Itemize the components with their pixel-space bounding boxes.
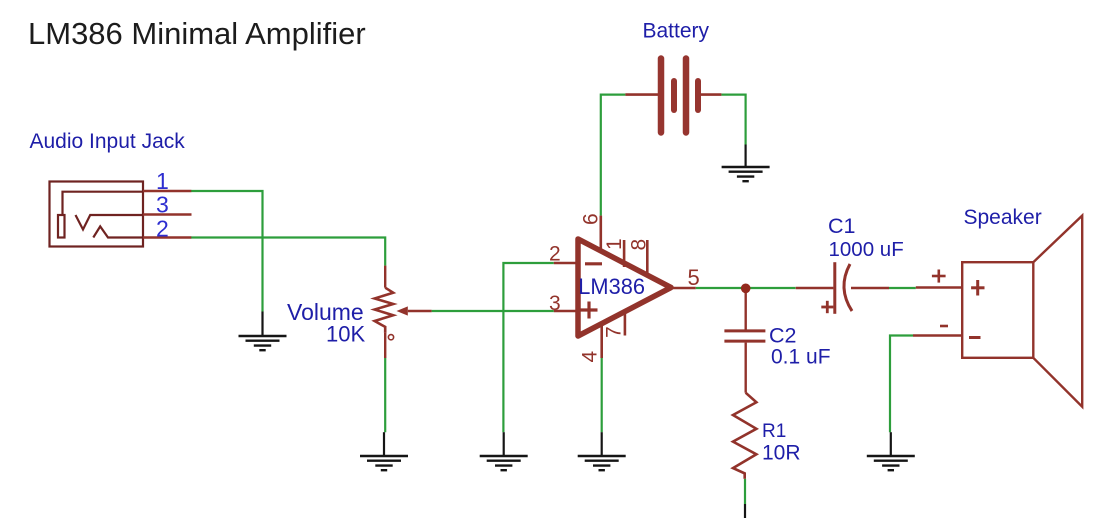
- svg-text:C2: C2: [769, 324, 796, 348]
- svg-text:10R: 10R: [762, 442, 801, 465]
- svg-text:Battery: Battery: [643, 20, 710, 43]
- svg-text:Audio Input Jack: Audio Input Jack: [30, 130, 186, 153]
- svg-text:2: 2: [156, 216, 169, 242]
- svg-text:1: 1: [156, 168, 169, 194]
- svg-text:LM386 Minimal Amplifier: LM386 Minimal Amplifier: [28, 16, 366, 51]
- svg-text:6: 6: [580, 213, 603, 225]
- svg-text:4: 4: [579, 351, 602, 363]
- svg-text:R1: R1: [762, 421, 786, 442]
- svg-text:3: 3: [549, 292, 561, 315]
- svg-text:2: 2: [549, 243, 561, 266]
- svg-text:5: 5: [688, 265, 700, 290]
- svg-text:1000 uF: 1000 uF: [829, 238, 904, 261]
- svg-text:0.1 uF: 0.1 uF: [771, 346, 831, 369]
- svg-text:LM386: LM386: [578, 274, 645, 299]
- svg-text:C1: C1: [828, 214, 855, 238]
- svg-text:8: 8: [628, 239, 651, 251]
- svg-text:10K: 10K: [326, 322, 365, 347]
- svg-text:3: 3: [156, 192, 169, 218]
- svg-text:Speaker: Speaker: [964, 206, 1042, 229]
- svg-text:7: 7: [603, 326, 626, 338]
- svg-text:1: 1: [603, 238, 626, 250]
